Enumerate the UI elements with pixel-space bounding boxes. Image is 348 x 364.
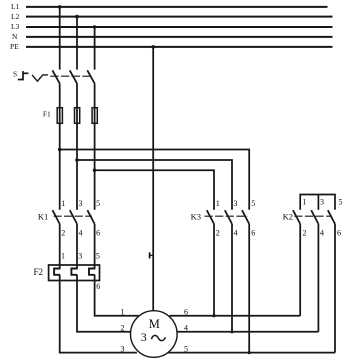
fuse F1 pole 3 bbox=[92, 107, 97, 124]
node branch phase 1 bbox=[58, 148, 62, 152]
svg-text:6: 6 bbox=[251, 229, 255, 238]
svg-text:5: 5 bbox=[251, 199, 255, 208]
wire K3 pole 1 down to node bbox=[213, 224, 215, 316]
supply line N bbox=[26, 36, 333, 38]
overload F2 heater element 1 bbox=[54, 269, 60, 275]
wire F2 output 4 to motor terminal 2 bbox=[77, 275, 130, 332]
motor tilde bbox=[152, 336, 166, 341]
contactor K2 bridge middle stub bbox=[317, 195, 319, 210]
svg-text:4: 4 bbox=[79, 229, 83, 238]
fuse F1 pole 1 bbox=[57, 107, 62, 124]
svg-text:6: 6 bbox=[337, 229, 341, 238]
contactor K3 pole 3 blade bbox=[242, 210, 249, 224]
wire switch pole 2 to fuse bbox=[76, 83, 78, 107]
svg-text:K3: K3 bbox=[191, 211, 201, 221]
svg-text:K2: K2 bbox=[283, 211, 293, 221]
contactor K2 star bridge bar bbox=[300, 195, 335, 210]
node K3-3 on motor wire 4 bbox=[230, 330, 233, 333]
wire branch phase 1 to K3 pole 5 bbox=[60, 150, 250, 210]
svg-text:3: 3 bbox=[141, 330, 147, 344]
wire K3 pole 5 down to node bbox=[248, 224, 250, 353]
svg-text:5: 5 bbox=[96, 199, 100, 208]
svg-text:2: 2 bbox=[121, 324, 125, 333]
svg-text:5: 5 bbox=[96, 252, 100, 261]
wire F2 output 6 to motor terminal 1 bbox=[95, 275, 139, 316]
wire K1 pole 1 to overload F2 bbox=[59, 224, 61, 269]
svg-text:3: 3 bbox=[78, 252, 82, 261]
wire K2 pole 3 down to motor wire 4 bbox=[317, 224, 319, 332]
node K3-1 on motor wire 6 bbox=[212, 314, 215, 317]
wire K1 pole 3 to overload F2 bbox=[94, 224, 96, 269]
svg-text:PE: PE bbox=[10, 42, 19, 51]
wire F2 output 2 to motor terminal 3 bbox=[60, 275, 137, 353]
overload F2 heater element 2 bbox=[71, 269, 77, 275]
wire fuse 2 to contactor K1 pole 2 bbox=[76, 124, 78, 210]
wire PE to motor bbox=[152, 47, 154, 311]
svg-text:L1: L1 bbox=[11, 2, 20, 11]
wire branch phase 2 to K3 pole 3 bbox=[77, 160, 232, 210]
wire switch pole 1 to fuse bbox=[59, 83, 61, 107]
wire motor terminal 6 to K2 pole 1 bbox=[169, 315, 300, 317]
earth tap mark on PE wire bbox=[150, 252, 154, 258]
svg-text:3: 3 bbox=[79, 199, 83, 208]
contactor K1 pole 1 blade bbox=[53, 210, 60, 224]
svg-text:1: 1 bbox=[121, 308, 125, 317]
wire motor terminal 5 to K2 pole 5 bbox=[168, 352, 335, 354]
wire fuse 3 to contactor K1 pole 3 bbox=[94, 124, 96, 210]
svg-text:L3: L3 bbox=[11, 22, 20, 31]
overload relay F2 box bbox=[49, 265, 100, 281]
svg-text:F2: F2 bbox=[33, 267, 43, 277]
contactor K1 dashed link bbox=[54, 215, 93, 217]
wire fuse 1 to contactor K1 pole 1 bbox=[59, 124, 61, 210]
supply line L2 bbox=[26, 16, 333, 18]
svg-text:6: 6 bbox=[96, 229, 100, 238]
wire motor terminal 4 to K2 pole 3 bbox=[177, 331, 318, 333]
contactor K1 pole 3 blade bbox=[87, 210, 94, 224]
svg-text:5: 5 bbox=[339, 198, 343, 207]
supply line L1 bbox=[26, 6, 328, 8]
svg-text:2: 2 bbox=[61, 229, 65, 238]
wire switch pole 3 to fuse bbox=[94, 83, 96, 107]
contactor K3 pole 1 blade bbox=[207, 210, 214, 224]
svg-text:4: 4 bbox=[320, 229, 324, 238]
contactor K2 dashed link bbox=[294, 215, 332, 217]
svg-text:N: N bbox=[12, 32, 18, 41]
contactor K2 pole 2 blade bbox=[311, 210, 318, 224]
svg-text:2: 2 bbox=[216, 229, 220, 238]
contactor K3 pole 2 blade bbox=[225, 210, 232, 224]
wire K2 pole 5 down to motor wire 5 bbox=[334, 224, 336, 353]
svg-text:3: 3 bbox=[320, 198, 324, 207]
svg-text:4: 4 bbox=[234, 229, 238, 238]
svg-text:F1: F1 bbox=[43, 109, 51, 118]
junction L2 tap bbox=[75, 15, 79, 19]
supply line PE bbox=[26, 46, 333, 48]
svg-text:1: 1 bbox=[61, 252, 65, 261]
switch S manual actuator bbox=[18, 71, 29, 80]
contactor K3 dashed link bbox=[205, 215, 248, 217]
motor M circle bbox=[131, 311, 178, 358]
svg-text:1: 1 bbox=[216, 199, 220, 208]
node branch phase 2 bbox=[75, 158, 79, 162]
junction PE tap bbox=[151, 45, 155, 49]
supply line L3 bbox=[26, 26, 333, 28]
contactor K2 pole 3 blade bbox=[328, 210, 335, 224]
overload F2 heater element 3 bbox=[89, 269, 95, 275]
junction L1 tap bbox=[58, 5, 62, 9]
wire K1 pole 2 to overload F2 bbox=[76, 224, 78, 269]
wire K2 pole 1 down to motor wire 6 bbox=[299, 224, 301, 316]
svg-text:2: 2 bbox=[303, 229, 307, 238]
switch S linkage spring bbox=[32, 75, 48, 81]
svg-text:1: 1 bbox=[303, 198, 307, 207]
wire L1 to switch pole 1 bbox=[59, 7, 61, 70]
svg-text:K1: K1 bbox=[38, 211, 48, 221]
svg-text:S: S bbox=[13, 70, 17, 79]
wire branch phase 3 to K3 pole 1 bbox=[95, 170, 214, 210]
switch S pole 1 blade bbox=[52, 70, 59, 83]
contactor K1 pole 2 blade bbox=[70, 210, 77, 224]
svg-text:6: 6 bbox=[96, 282, 100, 291]
wire L2 to switch pole 2 bbox=[76, 17, 78, 70]
wire K3 pole 3 down to node bbox=[231, 224, 233, 332]
node branch phase 3 bbox=[93, 168, 97, 172]
svg-text:1: 1 bbox=[61, 199, 65, 208]
svg-text:L2: L2 bbox=[11, 12, 20, 21]
switch S pole 2 blade bbox=[70, 70, 77, 83]
fuse F1 pole 2 bbox=[75, 107, 80, 124]
switch S linkage dashed line bbox=[50, 75, 92, 77]
contactor K2 pole 1 blade bbox=[293, 210, 300, 224]
svg-text:M: M bbox=[149, 317, 160, 331]
junction L3 tap bbox=[93, 25, 97, 29]
svg-text:3: 3 bbox=[121, 344, 125, 353]
wire L3 to switch pole 3 bbox=[94, 27, 96, 70]
switch S pole 3 blade bbox=[87, 70, 94, 83]
node K3-5 on motor wire 5 bbox=[248, 351, 251, 354]
svg-text:3: 3 bbox=[234, 199, 238, 208]
